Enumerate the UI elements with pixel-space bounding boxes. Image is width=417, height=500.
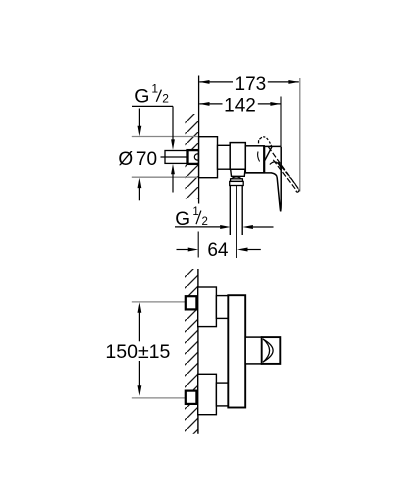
fitting circle xyxy=(194,154,200,160)
lever open blade interior dashes xyxy=(278,162,296,184)
gray extension line flange bottom xyxy=(132,176,198,178)
gray extension line flange top xyxy=(132,136,198,138)
svg-text:142: 142 xyxy=(224,95,256,116)
lower inlet nipple bottom view xyxy=(186,391,197,404)
inlet nipple top view xyxy=(165,151,187,164)
handle knob bottom view xyxy=(262,337,281,364)
leader line diameter 70 xyxy=(161,156,189,158)
svg-text:173: 173 xyxy=(235,74,267,95)
wall hatching top view xyxy=(185,114,198,199)
right body section top view xyxy=(245,146,264,173)
svg-text:2: 2 xyxy=(162,92,169,106)
lever blade closed position xyxy=(272,146,282,211)
dimension 142 xyxy=(199,95,281,116)
lower flange bottom view xyxy=(198,374,217,414)
knob crescent inner arc xyxy=(263,339,270,363)
outlet nut xyxy=(230,181,244,185)
escutcheon flange top view xyxy=(199,137,218,178)
gray extension line upper inlet xyxy=(132,301,186,303)
label G 1/2 top xyxy=(132,82,175,193)
main body bottom view xyxy=(228,295,245,407)
outlet collar xyxy=(231,179,243,182)
svg-text:1: 1 xyxy=(151,82,158,96)
outlet pipe right wall xyxy=(241,186,243,236)
extension line 142 (escutcheon front) xyxy=(280,97,282,147)
body bottom edge to blade xyxy=(245,172,271,174)
outlet pipe centerline xyxy=(236,186,238,258)
svg-text:64: 64 xyxy=(207,240,229,261)
cartridge housing top view xyxy=(230,143,245,170)
dimension diameter 70 xyxy=(118,109,157,201)
wall face line top view xyxy=(198,76,200,204)
body neck top view xyxy=(218,145,231,169)
upper neck bottom view xyxy=(216,296,228,319)
svg-text:150±15: 150±15 xyxy=(105,341,170,363)
cartridge bottom cap xyxy=(231,169,245,176)
extension line 173 (handle tip) xyxy=(299,78,301,191)
label G 1/2 bottom xyxy=(175,206,274,230)
upper flange bottom view xyxy=(198,287,217,327)
lever open blade tip loop xyxy=(296,189,299,192)
upper inlet nipple bottom view xyxy=(186,296,197,309)
pivot dome curve xyxy=(270,162,281,169)
wall hatching bottom view xyxy=(185,269,198,434)
svg-text:1: 1 xyxy=(192,206,198,218)
outlet pipe left wall xyxy=(229,186,231,236)
dimension 64 xyxy=(177,232,261,262)
knob crescent outer arc xyxy=(263,339,273,362)
lever rear tip dashed (open position) xyxy=(259,137,272,147)
wall face line bottom view xyxy=(197,269,199,434)
handle cap top edge xyxy=(264,145,281,147)
dimension 173 xyxy=(199,74,299,95)
lever neck diagonal xyxy=(265,146,272,160)
outlet shoulder hump xyxy=(231,177,241,179)
lever open position blade upper edge xyxy=(268,147,298,190)
lower neck bottom view xyxy=(216,383,228,406)
svg-text:G: G xyxy=(134,86,149,108)
handle stem bottom view xyxy=(245,337,262,364)
svg-text:Ø: Ø xyxy=(118,149,133,170)
union fitting top view xyxy=(188,150,199,164)
swing arc small xyxy=(258,152,260,162)
gray extension line lower inlet xyxy=(132,397,186,399)
dimension 150 +/- 15 xyxy=(105,302,170,396)
body right edge thick xyxy=(263,146,265,173)
svg-text:70: 70 xyxy=(136,149,157,170)
lever open position blade lower edge xyxy=(273,160,296,191)
